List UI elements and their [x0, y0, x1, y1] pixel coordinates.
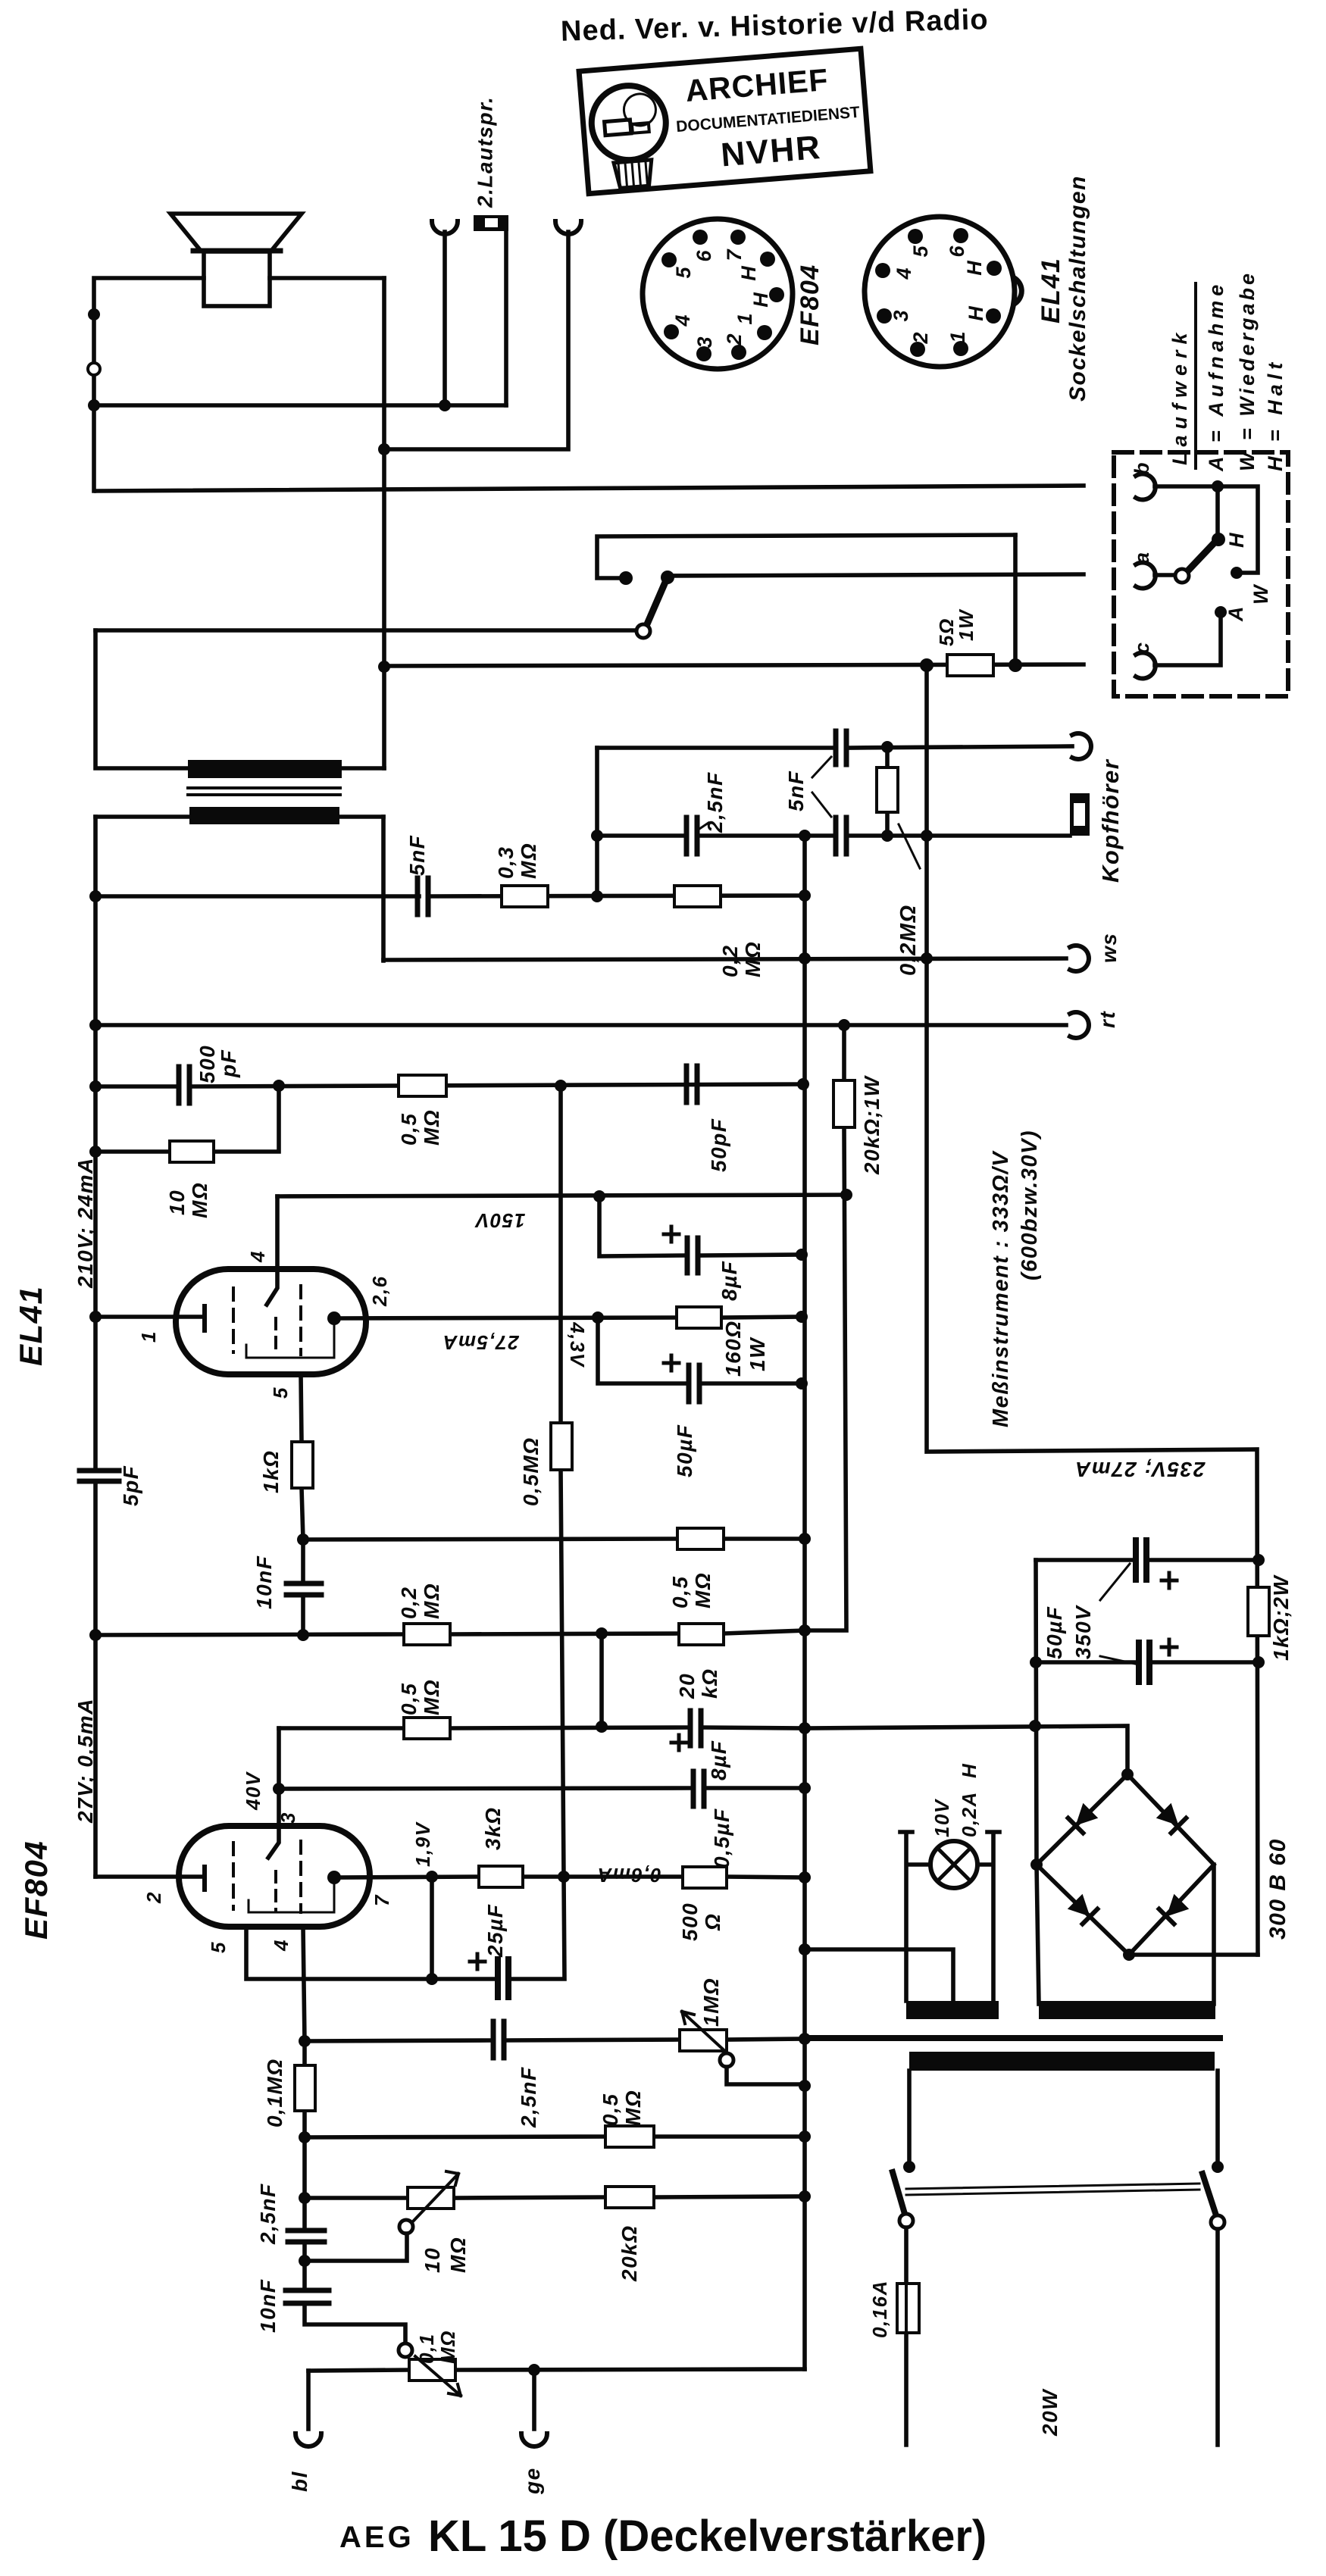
node [555, 1080, 567, 1092]
svg-text:0,6mA: 0,6mA [596, 1864, 661, 1887]
svg-text:EL41: EL41 [1037, 258, 1065, 324]
jack c [1136, 652, 1156, 678]
switch S1 lever [646, 580, 666, 626]
jack b [1136, 474, 1156, 500]
svg-text:6: 6 [693, 250, 715, 262]
node [591, 830, 603, 842]
node switch out [661, 571, 674, 584]
wire top loop [94, 278, 384, 491]
winding heater [906, 2001, 999, 2019]
svg-text:50µF: 50µF [673, 1424, 696, 1477]
resistor 20kOhm c [605, 2187, 654, 2208]
svg-text:Ω: Ω [701, 1913, 724, 1931]
node [299, 2192, 311, 2204]
winding primary [909, 2052, 1215, 2071]
rail B+ 210V [95, 1084, 803, 1086]
resistor 0,5 MOhm rail [399, 1075, 446, 1096]
diode D1 [1068, 1803, 1099, 1834]
svg-text:0,5MΩ: 0,5MΩ [519, 1436, 543, 1506]
node [378, 443, 390, 455]
wire 50uF branch [598, 1318, 802, 1383]
svg-text:0,16A: 0,16A [868, 2280, 891, 2338]
svg-text:Laufwerk: Laufwerk [1168, 327, 1191, 465]
node [799, 1782, 811, 1794]
svg-text:0,2MΩ: 0,2MΩ [896, 904, 921, 976]
node [558, 1871, 570, 1883]
node [89, 1146, 102, 1158]
rail a [668, 574, 1084, 576]
winding HV [1039, 2001, 1215, 2019]
rail b [96, 486, 1084, 491]
tube internals dashes EF [232, 1843, 235, 1909]
switch mains L [893, 2172, 905, 2214]
svg-text:4: 4 [246, 1250, 269, 1263]
svg-text:5: 5 [672, 267, 695, 279]
pot 0,1MOhm [399, 2343, 412, 2357]
switch lever S2 [1188, 542, 1215, 571]
node [273, 1080, 285, 1092]
wire cathode row [334, 1877, 805, 1877]
svg-text:1: 1 [946, 331, 969, 342]
node A contact [1215, 606, 1227, 618]
svg-text:(600bzw.30V): (600bzw.30V) [1018, 1130, 1042, 1280]
capacitor 5nF b [836, 818, 846, 854]
svg-text:2.Lautspr.: 2.Lautspr. [473, 96, 496, 208]
connector 2.Lautspr [474, 215, 508, 231]
svg-text:8µF: 8µF [718, 1261, 741, 1301]
wire 50uF top row [1036, 1558, 1259, 1562]
wire to 5ohm junction [1013, 535, 1018, 665]
svg-text:0,1MΩ: 0,1MΩ [263, 2058, 286, 2127]
svg-text:0,2: 0,2 [718, 945, 742, 977]
node [596, 1627, 608, 1640]
plus 8uF b [671, 1735, 686, 1750]
jack a [1136, 562, 1156, 588]
svg-text:27,5mA: 27,5mA [442, 1331, 520, 1354]
svg-text:3: 3 [890, 310, 912, 321]
svg-text:300 B 60: 300 B 60 [1265, 1838, 1290, 1940]
plus 25uF [470, 1954, 485, 1969]
capacitor 500pF [179, 1067, 189, 1103]
wire bridge legs [1037, 1865, 1214, 2004]
svg-text:MΩ: MΩ [517, 843, 540, 879]
svg-text:3: 3 [277, 1812, 299, 1824]
node [89, 890, 102, 902]
node [1253, 1656, 1265, 1668]
node [799, 2131, 811, 2143]
node [592, 1311, 604, 1324]
pointer 5nF [699, 757, 831, 829]
node [903, 2161, 915, 2173]
svg-text:50µF: 50µF [1043, 1606, 1066, 1659]
pointers 50uF [1100, 1564, 1135, 1664]
tube EF804 [179, 1826, 370, 1927]
node ws-1062 [799, 952, 811, 964]
wire switch row [95, 628, 637, 633]
svg-text:1kΩ: 1kΩ [259, 1449, 283, 1493]
svg-text:160Ω: 160Ω [721, 1320, 745, 1377]
svg-text:1kΩ;2W: 1kΩ;2W [1269, 1574, 1293, 1661]
pointer 0,2MOhm [899, 824, 920, 868]
wire primary right [1215, 2071, 1220, 2167]
node [799, 2080, 811, 2092]
capacitor 5pF [80, 1471, 119, 1481]
svg-text:MΩ: MΩ [436, 2330, 459, 2364]
wire primary top [95, 814, 383, 819]
svg-text:a: a [1131, 551, 1153, 564]
wire primary right to ws rail [381, 817, 386, 961]
node [591, 890, 603, 902]
svg-text:2,5nF: 2,5nF [256, 2183, 280, 2245]
svg-text:25µF: 25µF [483, 1904, 507, 1958]
node [796, 1377, 808, 1390]
node [799, 1624, 811, 1637]
node [1030, 1656, 1042, 1668]
svg-text:5: 5 [269, 1386, 292, 1399]
socket EF804 [643, 219, 793, 369]
svg-text:1W: 1W [746, 1336, 769, 1371]
svg-text:7: 7 [723, 249, 746, 261]
wire Kopfhoerer top [597, 746, 1072, 748]
svg-text:ws: ws [1097, 933, 1121, 963]
wire phones lower [595, 748, 599, 896]
tube EL41 [176, 1269, 366, 1374]
wire y535 [94, 403, 506, 408]
wire row 2901 [305, 2196, 805, 2198]
wiper 1M link [727, 2067, 805, 2084]
cathode tick EF [202, 1867, 207, 1890]
capacitor 50uF [689, 1365, 699, 1402]
node [1009, 658, 1022, 672]
wire a [1155, 573, 1174, 577]
svg-text:4: 4 [671, 314, 694, 327]
cathode bracket [246, 1877, 564, 1979]
svg-text:7: 7 [371, 1894, 393, 1906]
svg-text:0,5: 0,5 [397, 1113, 421, 1146]
pot 1MOhm [680, 2030, 727, 2051]
svg-text:ge: ge [521, 2467, 544, 2495]
svg-text:350V: 350V [1071, 1605, 1095, 1659]
node speaker left [88, 308, 100, 320]
resistor 0,5 MOhm d [605, 2126, 654, 2147]
open terminal [88, 363, 100, 375]
wire row 2361 [279, 1788, 805, 1789]
wire bridge bottom out [1129, 1952, 1258, 1957]
wire connector down [504, 231, 508, 405]
svg-text:210V; 24mA: 210V; 24mA [73, 1157, 97, 1289]
svg-text:0,5µF: 0,5µF [710, 1808, 733, 1868]
wire y1103 [597, 833, 1070, 838]
diode D4 [1159, 1894, 1190, 1924]
svg-text:MΩ: MΩ [420, 1109, 443, 1146]
node dead contact [619, 571, 633, 585]
chain 20k1W [805, 1025, 846, 1630]
svg-text:2,5nF: 2,5nF [517, 2066, 540, 2128]
jack J2 [555, 221, 581, 234]
svg-text:1: 1 [733, 313, 756, 324]
wire jack2 down [384, 232, 568, 449]
svg-text:MΩ: MΩ [420, 1679, 443, 1715]
svg-text:0,2: 0,2 [397, 1587, 421, 1619]
lamp leads [900, 1832, 999, 2001]
rail rt [95, 1023, 1066, 1027]
bridge 300B60 diamond [1037, 1774, 1214, 1955]
node [840, 1189, 852, 1201]
node [1123, 1949, 1135, 1961]
svg-text:W = Wiedergabe: W = Wiedergabe [1236, 270, 1259, 471]
diode D3 [1068, 1894, 1098, 1924]
node [297, 1629, 309, 1641]
resistor 1kOhm 2W [1248, 1587, 1269, 1636]
capacitor 5nF a [836, 731, 846, 764]
wire cap loop left [1036, 1560, 1037, 1865]
transformer Tr1 primary bar [189, 807, 339, 824]
capacitor 25uF [498, 1959, 508, 1997]
svg-text:H: H [1225, 532, 1248, 548]
wiper 10M link [305, 2234, 407, 2261]
node [1253, 1554, 1265, 1566]
anode inner lead EF [249, 1877, 334, 1912]
wire heater tap [805, 1949, 953, 2004]
node [426, 1973, 438, 1985]
svg-text:2,5nF: 2,5nF [703, 771, 727, 833]
capacitor 5nF c [418, 878, 428, 914]
node [1121, 1768, 1134, 1780]
jack ws [1070, 946, 1089, 971]
node [799, 1943, 811, 1955]
anode inner lead [246, 1318, 334, 1358]
node [799, 1871, 811, 1884]
svg-text:kΩ: kΩ [698, 1668, 721, 1699]
svg-text:5: 5 [909, 245, 932, 258]
resistor 0,5 MOhm c [677, 1528, 724, 1549]
resistor 3kOhm [479, 1866, 523, 1887]
socket EL41 [865, 217, 1021, 367]
svg-text:500: 500 [195, 1045, 219, 1083]
svg-text:20kΩ: 20kΩ [618, 2224, 641, 2282]
svg-text:H: H [965, 306, 987, 321]
fuse 0,16A [897, 2284, 919, 2333]
svg-text:MΩ: MΩ [420, 1583, 443, 1619]
node [89, 1080, 102, 1093]
svg-text:2,6: 2,6 [368, 1275, 391, 1307]
svg-text:0,2A: 0,2A [958, 1791, 980, 1837]
svg-text:2: 2 [909, 332, 932, 344]
wire row 2280 [279, 1727, 805, 1728]
resistor 0,1MOhm vert [295, 2065, 315, 2111]
node [920, 658, 934, 672]
svg-text:3kΩ: 3kΩ [481, 1806, 505, 1850]
svg-text:MΩ: MΩ [741, 941, 765, 977]
resistor 0,5MOhm vertical [551, 1423, 572, 1470]
wire pin5 to 1kOhm [301, 1374, 303, 1540]
tube internals dashes [232, 1288, 235, 1352]
node [273, 1783, 285, 1795]
svg-text:H: H [963, 261, 986, 276]
svg-text:5nF: 5nF [784, 771, 808, 811]
wire speaker right down [382, 278, 386, 768]
wire 25uF link [430, 1877, 434, 1979]
transformer Tr1 secondary bar [188, 760, 342, 778]
svg-text:H: H [749, 292, 772, 308]
svg-text:A: A [1224, 605, 1247, 622]
capacitor 2,5nF b [288, 2231, 324, 2242]
node [796, 1311, 808, 1323]
node [797, 1078, 809, 1090]
node [1212, 2161, 1224, 2173]
svg-text:KL 15 D (Deckelverstärker): KL 15 D (Deckelverstärker) [428, 2512, 987, 2561]
svg-text:pF: pF [217, 1049, 240, 1078]
resistor 0,5 MOhm b [404, 1718, 450, 1739]
plus 8uF a [664, 1227, 679, 1242]
svg-text:b: b [1131, 461, 1153, 475]
core line [805, 2035, 1220, 2041]
wire c [1155, 615, 1221, 665]
svg-text:1W: 1W [955, 608, 977, 641]
jack bl [306, 2371, 311, 2429]
resistor 1kOhm [292, 1442, 313, 1488]
rail 2156 [95, 1630, 805, 1635]
node [799, 889, 811, 902]
main bus vertical [802, 836, 807, 2369]
resistor 0,2 MOhm b [404, 1624, 450, 1645]
wire contact bracket [597, 535, 1015, 578]
node [299, 2131, 311, 2143]
svg-text:10V: 10V [930, 1798, 953, 1837]
node rt-left [89, 1019, 102, 1031]
node [299, 2255, 311, 2267]
wire grid EL41 row [277, 1195, 846, 1196]
anode node EF804 [327, 1871, 341, 1884]
rail to bridge top [805, 1726, 1127, 1774]
rail ws [383, 958, 1066, 960]
svg-text:W: W [1249, 583, 1272, 605]
svg-text:235V; 27mA: 235V; 27mA [1074, 1458, 1206, 1481]
svg-text:Meßinstrument : 333Ω/V: Meßinstrument : 333Ω/V [989, 1150, 1013, 1427]
svg-text:1: 1 [137, 1330, 160, 1343]
svg-text:rt: rt [1096, 1011, 1119, 1028]
svg-text:MΩ: MΩ [691, 1572, 715, 1608]
svg-text:4: 4 [270, 1939, 292, 1952]
wire grid down [267, 1196, 277, 1305]
svg-text:0,3: 0,3 [494, 846, 518, 879]
svg-text:1MΩ: 1MΩ [699, 1977, 723, 2027]
resistor 5 Ohm 1W [947, 655, 993, 676]
jack ge [532, 2370, 536, 2429]
grid hook EF [268, 1826, 279, 1858]
wire pin4 vertical [303, 1927, 405, 2344]
svg-text:0,5: 0,5 [668, 1576, 692, 1608]
resistor 20 kOhm b [679, 1624, 724, 1645]
vertical 0,5MOhm feed [561, 1086, 564, 1877]
svg-text:0,5: 0,5 [397, 1683, 421, 1715]
node [799, 1533, 811, 1545]
node jack1 [439, 399, 451, 411]
svg-text:EF804: EF804 [18, 1840, 54, 1940]
node [881, 741, 893, 753]
stamp NVHR [579, 48, 871, 193]
svg-text:5nF: 5nF [405, 835, 429, 876]
svg-text:MΩ: MΩ [446, 2237, 470, 2273]
svg-text:5: 5 [207, 1941, 230, 1953]
wire mains right [1215, 2229, 1220, 2445]
node [426, 1871, 438, 1883]
resistor 10 MOhm [95, 1086, 279, 1152]
node b [1212, 480, 1224, 492]
resistor 0,3 MOhm [502, 886, 548, 907]
svg-text:50pF: 50pF [707, 1118, 730, 1172]
wire row 2032 [303, 1539, 805, 1540]
svg-text:1,9V: 1,9V [411, 1821, 434, 1867]
svg-text:150V: 150V [474, 1209, 525, 1232]
anode node EL41 [327, 1311, 341, 1325]
svg-text:40V: 40V [242, 1771, 264, 1811]
node [799, 2190, 811, 2202]
svg-text:27V; 0,5mA: 27V; 0,5mA [73, 1698, 97, 1824]
capacitor 0,5uF [693, 1771, 704, 1806]
diode D2 [1156, 1803, 1187, 1834]
svg-text:0,5: 0,5 [599, 2093, 622, 2126]
svg-text:EL41: EL41 [13, 1286, 48, 1366]
dashed box Laufwerk [1114, 452, 1288, 696]
wire pin2 [95, 1874, 201, 1879]
resistor 20kOhm 1W [833, 1080, 855, 1127]
capacitor 2,5nF a [493, 2021, 504, 2058]
svg-text:10nF: 10nF [252, 1555, 276, 1609]
svg-text:20kΩ;1W: 20kΩ;1W [860, 1075, 883, 1175]
svg-text:MΩ: MΩ [621, 2090, 645, 2126]
node W contact [1231, 567, 1243, 579]
node [838, 1019, 850, 1031]
node [299, 2035, 311, 2047]
svg-text:H: H [737, 266, 760, 281]
wire b [1155, 486, 1258, 573]
capacitor 50uF 350V b [1139, 1643, 1149, 1682]
wire left loop down [95, 630, 384, 768]
transformer core lines [188, 788, 340, 795]
resistor 160 Ohm 1W [677, 1307, 721, 1328]
svg-text:500: 500 [678, 1902, 702, 1941]
node [799, 1722, 811, 1734]
node [593, 1190, 605, 1202]
svg-text:2: 2 [723, 333, 746, 345]
jack Kopfhoerer [1072, 733, 1091, 759]
svg-text:8µF: 8µF [707, 1740, 730, 1780]
node H contact [1212, 533, 1225, 546]
node [596, 1721, 608, 1733]
svg-text:EF804: EF804 [796, 264, 824, 345]
capacitor 8uF a [687, 1238, 698, 1273]
wire H contact [1215, 486, 1220, 535]
switch mains R [1202, 2174, 1216, 2215]
svg-text:20: 20 [675, 1673, 699, 1699]
node [796, 1249, 808, 1261]
capacitor 10nF b [286, 2290, 329, 2303]
svg-text:MΩ: MΩ [188, 1182, 211, 1218]
wire primary left [907, 2071, 912, 2167]
wire pin1 [95, 1315, 201, 1319]
svg-text:20W: 20W [1038, 2388, 1062, 2437]
svg-text:4,3V: 4,3V [566, 1321, 589, 1368]
connector phones [1070, 793, 1090, 836]
node [921, 830, 933, 842]
svg-text:10: 10 [165, 1190, 189, 1215]
cathode tick [202, 1306, 207, 1330]
svg-text:Sockelschaltungen: Sockelschaltungen [1065, 175, 1090, 402]
plus a [1162, 1573, 1177, 1588]
svg-text:AEG: AEG [339, 2521, 414, 2554]
node [799, 2033, 811, 2045]
